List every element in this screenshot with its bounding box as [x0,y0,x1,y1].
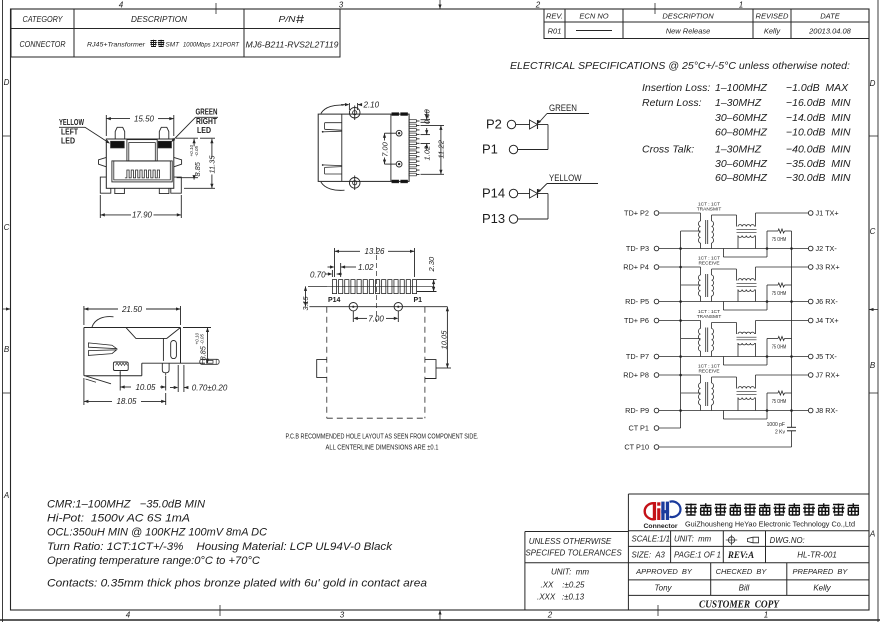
svg-text:DESCRIPTION: DESCRIPTION [131,14,188,24]
svg-text:RD- P9: RD- P9 [625,406,649,415]
description CJK chars [150,40,157,47]
pin J5 TX- [808,354,813,359]
projection symbol circle [728,537,734,543]
centering mark right [869,309,878,311]
pin J6 RX- [808,299,813,304]
dimension 7.00 pcb [352,311,354,322]
wire secondary top block 1 [712,214,737,216]
vertical centerline dashed [375,247,377,322]
diode symbol GREEN [530,120,538,129]
svg-text:RD+ P4: RD+ P4 [623,263,649,272]
capacitor C1 1000pF [787,426,796,428]
svg-text:75 OHM: 75 OHM [772,237,787,243]
transformer T3 primary [700,321,702,329]
svg-text:UNLESS OTHERWISE: UNLESS OTHERWISE [529,537,612,546]
pin J4 TX+ [808,318,813,323]
outer border bottom [0,619,880,621]
svg-text:CMR:1–100MHZ −35.0dB MIN: CMR:1–100MHZ −35.0dB MIN [47,499,205,511]
bottom foot left [115,188,125,193]
svg-text:−40.0dB MIN: −40.0dB MIN [786,144,851,156]
pcb layout pads [332,280,336,294]
svg-text:UNIT: mm: UNIT: mm [674,535,712,544]
dimension 0.70 +-0.20 [177,365,179,392]
wire lower rail block 1 [659,248,809,250]
LED window slot [171,341,177,359]
svg-text:Tony: Tony [654,584,672,593]
solder pin side view [162,363,169,373]
svg-text:1.02: 1.02 [423,145,432,161]
svg-text:.XXX :±0.13: .XXX :±0.13 [537,593,585,602]
svg-text:Hi-Pot: 1500v AC 6S 1mA: Hi-Pot: 1500v AC 6S 1mA [47,513,190,525]
lower plug opening [112,161,172,182]
svg-text:D: D [870,79,876,88]
company logo red arc [645,503,656,519]
svg-text:2: 2 [535,1,541,10]
transformer T2 primary [700,267,702,275]
shield divider [390,114,392,181]
mounting hole left [349,303,357,311]
wire J rail block 1 [756,212,809,214]
svg-text:11.35: 11.35 [207,155,216,174]
pins top view [409,120,416,123]
resistor R4 75 OHM [767,392,778,394]
svg-text:21.50: 21.50 [121,305,143,314]
svg-text:ELECTRICAL SPECIFICATIONS @ 25: ELECTRICAL SPECIFICATIONS @ 25°C+/-5°C u… [510,60,850,72]
svg-text:GuiZhousheng HeYao Electronic: GuiZhousheng HeYao Electronic Technology… [685,520,855,529]
svg-text:0.70±0.20: 0.70±0.20 [192,384,228,393]
transformer T1 primary [700,213,702,221]
spring fork upper prong [88,343,116,349]
ECN dash [576,30,612,32]
svg-text:TRANSMIT: TRANSMIT [697,314,722,320]
top recess trapezoid [126,328,181,339]
svg-text:2: 2 [547,611,553,620]
primary CT rail [680,231,682,428]
svg-text:CUSTOMER COPY: CUSTOMER COPY [699,599,780,611]
transformer T3 secondary [712,329,714,352]
pin J2 TX- [808,246,813,251]
zone tick marks left [3,135,11,137]
mounting notch left [317,360,327,378]
svg-text:3.15: 3.15 [301,296,310,311]
choke L1 [738,225,755,227]
svg-text:1–100MHZ: 1–100MHZ [715,82,768,94]
transformer T3 core [705,328,707,353]
dimension 17.90 [99,195,101,218]
choke L3 [738,332,755,334]
junction dots block 2 [766,300,769,303]
svg-text:17.90: 17.90 [132,211,153,220]
top view outline [318,114,409,181]
primary center tap block 3 [681,338,701,340]
dimension 11.22 [421,124,445,126]
primary center tap block 1 [681,230,701,232]
screw boss top [349,107,360,118]
svg-text:MJ6-B211-RVS2L2T119: MJ6-B211-RVS2L2T119 [246,40,339,50]
back wall vertical [162,338,164,361]
svg-text:60–80MHZ: 60–80MHZ [715,127,768,139]
primary center tap block 2 [681,284,701,286]
wire upper rail block 4 [659,374,701,376]
wire J rail block 3 [756,320,809,322]
svg-text:New Release: New Release [666,27,711,36]
dimension 13.26 [334,248,336,277]
zone tick marks top [215,3,217,14]
svg-text:−30.0dB MIN: −30.0dB MIN [786,172,851,184]
svg-text:CHECKED BY: CHECKED BY [716,567,768,576]
svg-text:2.30: 2.30 [427,256,436,273]
svg-text:−35.0dB MIN: −35.0dB MIN [786,158,851,170]
interior contact finger top [325,122,342,124]
top tab right [159,127,169,139]
svg-text:Bill: Bill [739,584,750,593]
transformer T4 primary [700,375,702,383]
centering mark top [439,0,441,9]
shield outline front view [106,139,174,188]
svg-text:1–30MHZ: 1–30MHZ [715,144,762,156]
svg-text:30–60MHZ: 30–60MHZ [715,112,768,124]
svg-text:1: 1 [764,611,768,620]
wire upper rail block 2 [659,266,701,268]
svg-text:13.26: 13.26 [364,247,385,256]
svg-text:3: 3 [340,611,345,620]
centering mark left [3,308,11,310]
svg-text:SPECIFED TOLERANCES: SPECIFED TOLERANCES [525,549,622,558]
transformer T2 core [705,274,707,297]
pin J8 RX- [808,408,813,413]
pin J1 TX+ [808,211,813,216]
latch leg diagonal [86,376,112,384]
dimension 8.85 front [176,137,198,139]
svg-text:REVISED: REVISED [756,12,790,21]
svg-text:APPROVED BY: APPROVED BY [635,567,693,576]
svg-text:Turn Ratio: 1CT:1CT+/-3% Ho: Turn Ratio: 1CT:1CT+/-3% Housing Materia… [47,541,393,553]
wire J rail block 4 [756,374,809,376]
svg-text:HL-TR-001: HL-TR-001 [797,551,837,560]
choke connections block 1 [737,236,739,249]
svg-text:J5 TX-: J5 TX- [816,352,838,361]
svg-text:REV:A: REV:A [727,550,754,560]
side view top edge [84,327,181,329]
svg-text:DWG.NO:: DWG.NO: [770,536,805,545]
termination stub block 1 [722,249,724,258]
svg-text:P14: P14 [482,186,505,201]
zone tick marks bottom [219,605,221,616]
resistor R3 75 OHM [767,338,778,340]
P/N hash symbol [296,15,304,23]
junction dots block 3 [766,355,769,358]
svg-text:8.85: 8.85 [193,161,202,176]
transformer T1 secondary [712,221,714,243]
wire lower rail block 2 [659,301,809,303]
svg-text:SCALE:1/1: SCALE:1/1 [632,535,671,544]
svg-text:GREEN: GREEN [549,103,577,114]
side view step [141,363,143,376]
board lock leg right [171,177,182,193]
mounting hole right [394,303,402,311]
CT P10 rail [659,446,792,448]
company name chinese [685,504,697,516]
wire J rail block 2 [756,266,809,268]
common termination line [791,231,793,427]
transformer T4 core [705,382,707,406]
svg-text:J2 TX-: J2 TX- [816,244,838,253]
svg-text:−10.0dB MIN: −10.0dB MIN [786,127,851,139]
svg-text:7.00: 7.00 [368,314,384,323]
centering mark bottom [439,610,441,620]
svg-text:15.50: 15.50 [134,115,155,124]
svg-text:3: 3 [339,1,344,10]
svg-text:TD+ P2: TD+ P2 [624,209,649,218]
svg-text:TD- P3: TD- P3 [626,244,649,253]
svg-text:0.40: 0.40 [423,109,432,125]
svg-text:0.70: 0.70 [310,270,326,279]
primary center tap block 4 [681,392,701,394]
dimension 7.00 top view [385,132,397,134]
latch arc top left [321,105,344,113]
transformer T4 secondary [712,383,714,405]
dimension 10.05 side view [119,372,121,391]
wire secondary top block 3 [712,322,737,324]
dimension 15.50 [105,115,107,136]
board lock leg left [100,177,111,193]
company logo letters [653,502,656,520]
svg-text:A: A [869,530,875,539]
svg-text:−1.0dB MAX: −1.0dB MAX [786,82,849,94]
svg-text:J7 RX+: J7 RX+ [816,371,840,380]
svg-text:Connector: Connector [644,523,679,530]
svg-text:B: B [870,361,876,370]
svg-text:CT P10: CT P10 [624,443,649,452]
svg-text:P/N: P/N [279,14,297,24]
diode symbol YELLOW [530,189,538,198]
mounting hole bottom [396,161,402,167]
svg-text:Return Loss:: Return Loss: [642,97,702,109]
svg-text:P1: P1 [482,142,498,157]
wire upper rail block 1 [659,212,701,214]
svg-text:PAGE:1 OF 1: PAGE:1 OF 1 [674,551,721,560]
svg-text:A: A [3,491,9,500]
wire lower rail block 4 [659,410,809,412]
svg-text:60–80MHZ: 60–80MHZ [715,172,768,184]
svg-text:-0.05: -0.05 [194,146,199,157]
svg-text:1000Mbps 1X1PORT: 1000Mbps 1X1PORT [183,42,240,49]
svg-text:DESCRIPTION: DESCRIPTION [662,12,714,21]
svg-text:TRANSMIT: TRANSMIT [697,207,722,213]
svg-text:RJ45+Transformer: RJ45+Transformer [87,42,146,49]
svg-text:.XX :±0.25: .XX :±0.25 [541,581,586,590]
dimension 2.30 [417,279,437,281]
revision table [544,9,869,39]
svg-text:YELLOW: YELLOW [59,117,84,127]
dimension 2.10 [348,103,350,110]
svg-text:Cross Talk:: Cross Talk: [642,144,694,156]
svg-text:RECEIVE: RECEIVE [698,369,719,375]
svg-text:PREPARED BY: PREPARED BY [793,567,849,576]
svg-text:LED: LED [197,125,211,135]
CT P1 rail [659,427,681,429]
svg-text:J6 RX-: J6 RX- [816,297,839,306]
svg-text:4: 4 [119,1,124,10]
screw boss bottom [349,178,360,189]
svg-text:1.02: 1.02 [358,263,374,272]
svg-text:4: 4 [126,611,131,620]
termination stub block 2 [722,302,724,311]
svg-text:Kelly: Kelly [764,27,782,36]
transformer T1 core [705,220,707,244]
dimension 3.15 [305,286,307,306]
latch arc bottom left [321,182,345,190]
resistor R1 75 OHM [767,230,778,232]
svg-text:YELLOW: YELLOW [549,173,582,184]
mounting hole top [396,130,402,136]
svg-text:ECN NO: ECN NO [579,12,608,21]
latch arc side view [92,317,114,327]
choke connections block 4 [737,398,739,411]
transformer T2 secondary [712,275,714,296]
svg-text:2 Kv: 2 Kv [775,430,786,436]
svg-text:P2: P2 [486,117,502,132]
mounting notch right [425,360,436,379]
component outline dashed [326,307,328,419]
svg-text:RD- P5: RD- P5 [625,297,649,306]
svg-text:RD+ P8: RD+ P8 [623,371,649,380]
top tab left [115,127,125,139]
dimension 10.05 pcb [436,367,451,369]
pcb surface line [142,362,205,364]
dimension 0.70 pcb [331,270,333,277]
svg-text:C: C [4,223,10,232]
resistor R2 75 OHM [767,284,778,286]
title block [628,493,869,495]
choke L2 [738,279,755,281]
green LED rectangle [158,141,171,148]
plug latch slot [127,140,157,161]
wire lower rail block 3 [659,356,809,358]
svg-text:REV.: REV. [546,12,563,21]
hole row line [309,306,447,308]
category table [11,9,340,57]
side view left edge [83,328,85,376]
svg-text:10.05: 10.05 [439,330,448,350]
zone tick marks right [869,135,878,137]
svg-text:75 OHM: 75 OHM [772,345,787,351]
dimension 1.02 top view [421,134,431,136]
projection symbol cone [748,537,759,543]
svg-text:-0.05: -0.05 [200,334,205,345]
svg-text:TD- P7: TD- P7 [626,352,649,361]
svg-text:J4 TX+: J4 TX+ [816,316,839,325]
svg-text:20013.04.08: 20013.04.08 [808,27,852,36]
dimension 8.85 side view [183,327,211,329]
svg-text:DATE: DATE [820,12,840,21]
svg-text:2.10: 2.10 [363,100,380,109]
dimension 21.50 [83,306,85,325]
termination stub block 3 [722,357,724,366]
interior contact finger bottom [322,164,341,167]
svg-text:30–60MHZ: 30–60MHZ [715,158,768,170]
svg-text:GREEN: GREEN [196,107,218,117]
svg-text:−14.0dB MIN: −14.0dB MIN [786,112,851,124]
svg-text:75 OHM: 75 OHM [772,399,787,405]
svg-text:C: C [870,227,876,236]
svg-text:R01: R01 [548,27,562,36]
outer border right [877,0,879,622]
svg-text:J3 RX+: J3 RX+ [816,263,840,272]
svg-text:1–30MHZ: 1–30MHZ [715,97,762,109]
wire secondary top block 2 [712,268,737,270]
company logo blue arc [670,501,681,517]
svg-text:ALL CENTERLINE DIMENSIONS ARE: ALL CENTERLINE DIMENSIONS ARE ±0.1 [326,445,439,452]
svg-text:Contacts: 0.35mm thick phos br: Contacts: 0.35mm thick phos bronze plate… [47,578,427,590]
svg-text:1000 pF: 1000 pF [767,422,785,428]
svg-text:8.85: 8.85 [199,345,208,360]
svg-text:P.C.B RECOMMENDED HOLE LAYOUT: P.C.B RECOMMENDED HOLE LAYOUT AS SEEN FR… [286,434,479,441]
yellow LED rectangle [111,141,125,148]
svg-text:Operating temperature range:0°: Operating temperature range:0°C to +70°C [47,555,260,567]
termination stub block 4 [722,411,724,420]
svg-text:P13: P13 [482,211,505,226]
pin J3 RX+ [808,265,813,270]
dimension 11.35 front [200,137,215,139]
bottom foot right [159,188,169,193]
side wing left [99,157,107,166]
front housing divider [341,114,343,181]
svg-text:B: B [4,345,10,354]
wire upper rail block 3 [659,320,701,322]
junction dots block 4 [766,409,769,412]
svg-text:1: 1 [739,1,743,10]
svg-text:P1: P1 [414,297,423,304]
svg-text:11.22: 11.22 [437,139,446,158]
svg-text:SMT: SMT [166,42,180,49]
svg-text:CATEGORY: CATEGORY [23,14,64,24]
svg-text:10.05: 10.05 [135,383,156,392]
svg-text:RECEIVE: RECEIVE [698,261,719,267]
svg-text:CT P1: CT P1 [628,424,649,433]
choke connections block 3 [737,343,739,357]
svg-text:18.05: 18.05 [116,397,137,406]
choke connections block 2 [737,290,739,302]
pin J7 RX+ [808,373,813,378]
outer border left [2,0,4,622]
svg-text:D: D [4,78,10,87]
svg-text:Kelly: Kelly [813,584,831,593]
spring fork lower prong [88,350,116,356]
svg-text:7.00: 7.00 [381,141,390,157]
pad row centerline [327,285,435,287]
side view right edge [180,328,182,364]
wire secondary top block 4 [712,376,737,378]
svg-text:J1 TX+: J1 TX+ [816,209,839,218]
side wing right [174,157,182,166]
svg-text:−16.0dB MIN: −16.0dB MIN [786,97,851,109]
choke L4 [738,387,755,389]
dimension 18.05 [83,378,85,405]
junction dots block 1 [766,247,769,250]
svg-text:J8 RX-: J8 RX- [816,406,839,415]
svg-text:P14: P14 [328,297,341,304]
contact comb [125,170,160,178]
solder tab marks bottom edge [392,180,399,183]
svg-text:CONNECTOR: CONNECTOR [20,39,66,49]
svg-text:75 OHM: 75 OHM [772,291,787,297]
svg-text:LED: LED [61,136,75,146]
svg-text:OCL:350uH MIN @ 100KHZ 100mV 8: OCL:350uH MIN @ 100KHZ 100mV 8mA DC [47,527,267,539]
svg-text:SIZE: A3: SIZE: A3 [632,551,666,560]
svg-text:Insertion Loss:: Insertion Loss: [642,82,710,94]
svg-text:TD+ P6: TD+ P6 [624,316,649,325]
